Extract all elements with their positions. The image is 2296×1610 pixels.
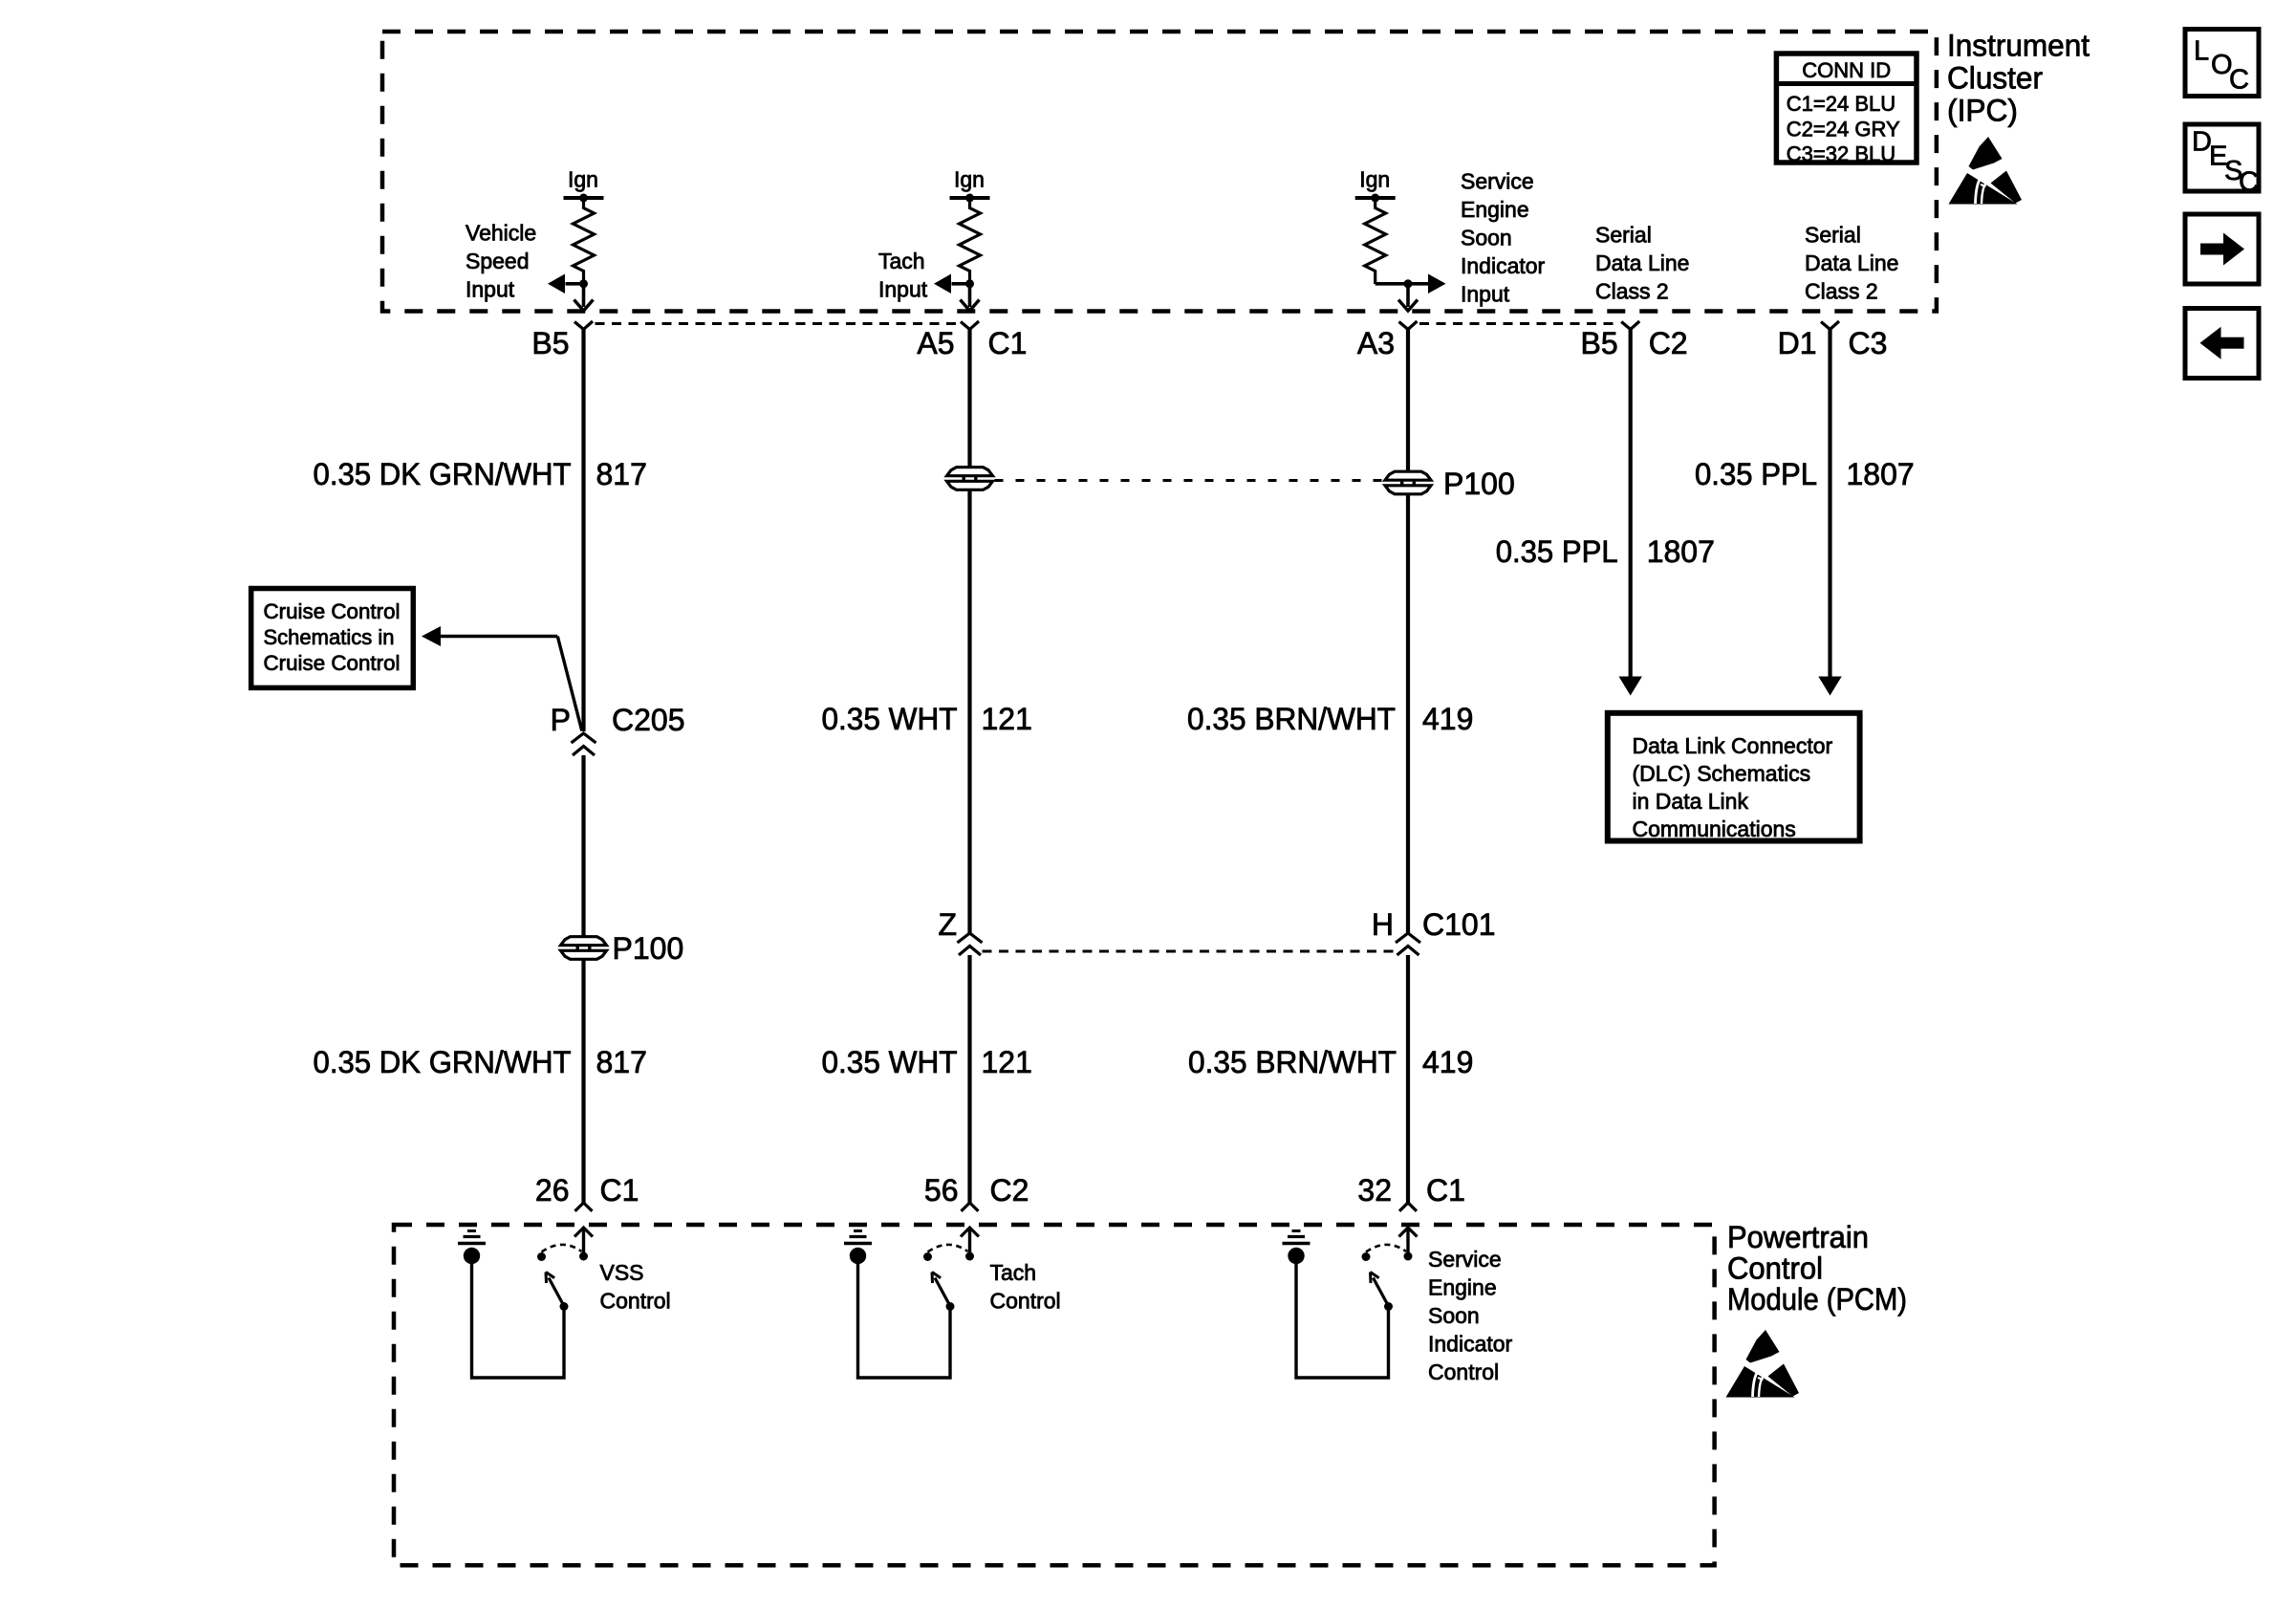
svg-text:P: P xyxy=(551,703,571,737)
svg-text:Ign: Ign xyxy=(954,167,985,192)
svg-text:1807: 1807 xyxy=(1847,457,1915,491)
svg-text:0.35 WHT: 0.35 WHT xyxy=(822,702,958,736)
Ign feed bar (VSS) xyxy=(564,196,604,200)
svg-text:H: H xyxy=(1372,907,1394,942)
svg-text:Tach: Tach xyxy=(878,249,925,273)
Ign feed bar (SES) xyxy=(1355,196,1396,200)
internal output arrow pointing right (SES) xyxy=(1428,274,1446,294)
connector C1 dashed tie line (B5 to A5) xyxy=(596,322,959,325)
wire from switch to ground (Tach) xyxy=(858,1263,951,1378)
Instrument Cluster (IPC) module dashed box xyxy=(382,32,1937,312)
svg-text:0.35 DK GRN/WHT: 0.35 DK GRN/WHT xyxy=(314,457,572,491)
junction dot Ign (SES) xyxy=(1371,194,1379,203)
svg-text:Speed: Speed xyxy=(466,249,530,273)
svg-text:0.35 WHT: 0.35 WHT xyxy=(822,1045,958,1079)
svg-text:Z: Z xyxy=(938,907,957,942)
svg-text:Input: Input xyxy=(466,277,515,302)
resistor Tach xyxy=(960,198,981,284)
svg-text:A3: A3 xyxy=(1357,326,1395,360)
IPC terminal D1-C3 xyxy=(1821,321,1839,330)
svg-text:Data Line: Data Line xyxy=(1805,250,1898,275)
switch lever arrow (VSS) xyxy=(549,1278,564,1307)
svg-text:Instrument: Instrument xyxy=(1947,29,2090,63)
svg-text:in Data Link: in Data Link xyxy=(1633,789,1749,814)
svg-text:419: 419 xyxy=(1422,1045,1473,1079)
svg-text:C1=24 BLU: C1=24 BLU xyxy=(1787,92,1895,116)
svg-text:0.35 BRN/WHT: 0.35 BRN/WHT xyxy=(1187,702,1396,736)
svg-text:CONN ID: CONN ID xyxy=(1802,58,1891,82)
open chevron arrowhead down (Tach) xyxy=(961,300,980,312)
connector dashed tie line (A3 to B5/C2) xyxy=(1419,322,1619,325)
switch pivot dot (VSS) xyxy=(560,1302,569,1311)
switch throw dot (SES) xyxy=(1362,1252,1371,1261)
dashed actuation arc (VSS) xyxy=(542,1245,582,1252)
svg-text:419: 419 xyxy=(1422,702,1473,736)
grommet P100 (wire 121) xyxy=(947,468,993,476)
svg-text:C205: C205 xyxy=(612,703,685,737)
wire 419 lower segment xyxy=(1406,955,1410,1204)
connector C101 break (pin Z) xyxy=(958,933,983,943)
junction dot at resistor bottom (VSS) xyxy=(579,279,588,288)
svg-text:Engine: Engine xyxy=(1461,197,1529,222)
svg-text:C1: C1 xyxy=(600,1173,639,1207)
svg-text:Ign: Ign xyxy=(568,167,598,192)
svg-text:Control: Control xyxy=(1428,1360,1499,1384)
svg-text:Powertrain: Powertrain xyxy=(1727,1220,1869,1254)
svg-text:L: L xyxy=(2194,36,2209,67)
ground (SES) xyxy=(1288,1248,1304,1264)
switch lever arrow (SES) xyxy=(1374,1278,1389,1307)
ground (VSS) xyxy=(464,1248,480,1264)
connector C101 break (pin H) xyxy=(1396,933,1420,943)
svg-text:26: 26 xyxy=(535,1173,570,1207)
CONN ID table xyxy=(1776,54,1917,163)
switch pivot dot (SES) xyxy=(1384,1302,1393,1311)
switch common dot (VSS) xyxy=(579,1252,588,1261)
DESC nav box xyxy=(2185,124,2259,191)
internal output arrow pointing left (Tach) xyxy=(952,282,970,286)
svg-text:C: C xyxy=(2229,65,2249,96)
svg-text:C2: C2 xyxy=(990,1173,1029,1207)
svg-text:1807: 1807 xyxy=(1647,534,1715,569)
internal output arrow pointing left (VSS) xyxy=(566,282,584,286)
junction dot at branch (SES) xyxy=(1375,282,1428,286)
svg-text:0.35 PPL: 0.35 PPL xyxy=(1496,534,1618,569)
svg-text:0.35 PPL: 0.35 PPL xyxy=(1695,457,1817,491)
wire 817 lower segment xyxy=(581,959,585,1203)
wire 817 upper segment (B5 to C205) xyxy=(581,329,585,731)
svg-text:Control: Control xyxy=(990,1289,1061,1314)
switch common dot (SES) xyxy=(1404,1252,1413,1261)
svg-text:Service: Service xyxy=(1428,1247,1502,1272)
svg-text:Class 2: Class 2 xyxy=(1595,279,1669,304)
wire 1807 segment (D1/C3 to DLC) xyxy=(1828,329,1831,677)
Data Link Connector callout box xyxy=(1608,713,1860,841)
wire 121 upper segment (A5 to P100) xyxy=(967,329,971,468)
switch lever arrow (Tach) xyxy=(935,1278,950,1307)
wire 419 upper segment (A3 to P100) xyxy=(1406,329,1410,472)
IPC terminal A5 xyxy=(961,321,979,330)
wire stub down to IPC edge (VSS) xyxy=(582,284,586,307)
open chevron arrowhead down (SES) xyxy=(1398,300,1418,312)
svg-text:P100: P100 xyxy=(1443,467,1515,501)
svg-text:Indicator: Indicator xyxy=(1428,1332,1513,1357)
wire 121 middle segment xyxy=(967,490,971,933)
wire stub down to IPC edge (Tach) xyxy=(968,284,972,307)
LOC nav box xyxy=(2185,30,2259,97)
Powertrain Control Module (PCM) dashed box xyxy=(394,1225,1715,1565)
back nav box xyxy=(2185,309,2259,379)
svg-text:C3=32 BLU: C3=32 BLU xyxy=(1787,141,1895,165)
dashed actuation arc (Tach) xyxy=(928,1245,968,1252)
callout arrow to Cruise Control xyxy=(422,626,441,646)
svg-text:Cluster: Cluster xyxy=(1947,61,2043,96)
IPC terminal B5-C2 xyxy=(1621,321,1639,330)
switch throw dot (VSS) xyxy=(537,1252,546,1261)
PCM terminal 56 xyxy=(962,1203,979,1211)
ground (Tach) xyxy=(850,1248,866,1264)
svg-text:Cruise Control: Cruise Control xyxy=(264,651,401,675)
svg-text:0.35 BRN/WHT: 0.35 BRN/WHT xyxy=(1188,1045,1397,1079)
PCM terminal 26 xyxy=(575,1203,593,1211)
svg-text:C2: C2 xyxy=(1649,326,1688,360)
dashed connector tie line C101 xyxy=(983,950,1397,953)
open chevron arrowhead down (VSS) xyxy=(574,300,594,312)
svg-text:Soon: Soon xyxy=(1461,226,1512,250)
forward nav box xyxy=(2185,214,2259,284)
svg-text:56: 56 xyxy=(924,1173,959,1207)
svg-text:Module (PCM): Module (PCM) xyxy=(1727,1282,1907,1316)
svg-text:817: 817 xyxy=(596,1045,647,1079)
junction dot Ign (Tach) xyxy=(965,194,974,203)
switch throw dot (Tach) xyxy=(923,1252,932,1261)
grommet P100 (wire 419) xyxy=(1385,471,1431,480)
svg-text:Serial: Serial xyxy=(1595,223,1652,248)
svg-text:Tach: Tach xyxy=(990,1260,1037,1285)
wire 121 lower segment xyxy=(967,955,971,1204)
wire 419 middle segment xyxy=(1406,494,1410,933)
wire stub down to IPC edge (SES) xyxy=(1406,284,1410,307)
dashed grommet tie line P100 xyxy=(995,479,1384,482)
dashed actuation arc (SES) xyxy=(1366,1245,1406,1252)
svg-text:Ign: Ign xyxy=(1359,167,1390,192)
svg-text:Control: Control xyxy=(600,1289,671,1314)
grommet P100 (wire 817) xyxy=(561,937,607,946)
svg-text:Cruise Control: Cruise Control xyxy=(264,599,401,623)
svg-text:A5: A5 xyxy=(917,326,954,360)
svg-text:32: 32 xyxy=(1357,1173,1392,1207)
PCM terminal 32 xyxy=(1399,1203,1417,1211)
connector C205 break xyxy=(572,733,596,743)
svg-text:C: C xyxy=(2239,167,2259,198)
wire 1807 segment (B5/C2 to DLC) xyxy=(1629,329,1633,677)
junction dot Ign (VSS) xyxy=(579,194,588,203)
switch pivot dot (Tach) xyxy=(946,1302,955,1311)
Ign feed bar (Tach) xyxy=(950,196,990,200)
driver output arrow up (VSS) xyxy=(582,1228,585,1256)
ESD sensitivity symbol (IPC) xyxy=(1949,137,2023,205)
svg-text:D1: D1 xyxy=(1778,326,1817,360)
svg-text:B5: B5 xyxy=(1581,326,1618,360)
svg-text:Input: Input xyxy=(878,277,928,302)
svg-text:C1: C1 xyxy=(988,326,1028,360)
resistor SES xyxy=(1365,198,1386,284)
Cruise Control callout box xyxy=(251,589,414,688)
svg-text:Class 2: Class 2 xyxy=(1805,279,1878,304)
svg-text:P100: P100 xyxy=(613,931,684,966)
svg-text:0.35 DK GRN/WHT: 0.35 DK GRN/WHT xyxy=(314,1045,572,1079)
svg-text:Input: Input xyxy=(1461,282,1510,307)
svg-text:Soon: Soon xyxy=(1428,1303,1480,1328)
svg-text:Communications: Communications xyxy=(1633,816,1796,841)
svg-text:C2=24 GRY: C2=24 GRY xyxy=(1787,117,1900,141)
svg-text:121: 121 xyxy=(982,1045,1032,1079)
svg-text:(DLC) Schematics: (DLC) Schematics xyxy=(1633,761,1811,786)
switch common dot (Tach) xyxy=(965,1252,974,1261)
svg-text:Schematics in: Schematics in xyxy=(264,625,395,649)
wire 817 middle segment (C205 to P100) xyxy=(581,755,585,937)
svg-text:Engine: Engine xyxy=(1428,1275,1497,1300)
svg-text:Data Line: Data Line xyxy=(1595,250,1689,275)
svg-text:121: 121 xyxy=(982,702,1032,736)
IPC terminal A3 xyxy=(1399,321,1418,330)
svg-text:B5: B5 xyxy=(531,326,569,360)
ESD sensitivity symbol (PCM) xyxy=(1726,1330,1800,1398)
svg-text:Vehicle: Vehicle xyxy=(466,221,536,246)
svg-text:(IPC): (IPC) xyxy=(1947,94,2018,128)
driver output arrow up (SES) xyxy=(1406,1228,1409,1256)
svg-text:C3: C3 xyxy=(1849,326,1888,360)
junction dot at resistor bottom (Tach) xyxy=(965,279,974,288)
svg-text:Indicator: Indicator xyxy=(1461,253,1546,278)
wire from switch to ground (VSS) xyxy=(472,1263,565,1378)
svg-text:Control: Control xyxy=(1727,1251,1823,1286)
driver output arrow up (Tach) xyxy=(968,1228,971,1256)
resistor VSS xyxy=(574,198,595,284)
svg-text:C1: C1 xyxy=(1426,1173,1465,1207)
svg-text:Serial: Serial xyxy=(1805,223,1861,248)
svg-text:Service: Service xyxy=(1461,169,1534,194)
svg-text:817: 817 xyxy=(596,457,647,491)
svg-text:VSS: VSS xyxy=(600,1260,644,1285)
wire from switch to ground (SES) xyxy=(1296,1263,1389,1378)
svg-text:Data Link Connector: Data Link Connector xyxy=(1633,733,1833,758)
svg-text:C101: C101 xyxy=(1422,907,1496,942)
IPC terminal B5 xyxy=(574,321,593,330)
